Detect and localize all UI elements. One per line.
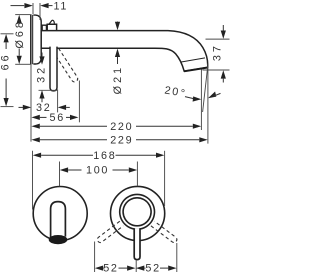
handle stem (front): [134, 228, 140, 259]
outlet face edge (thick): [184, 68, 208, 72]
dimension Ø68 (vertical, plate): [14, 15, 30, 65]
dimension 168: [33, 150, 165, 162]
handle body box: [47, 24, 56, 31]
dimension 37 (right): [203, 25, 230, 83]
svg-text:220: 220: [110, 121, 133, 133]
loop handle ring (front): [120, 194, 155, 229]
outlet joint line: [181, 58, 205, 62]
spout tube + curved outlet (silhouette): [41, 31, 208, 72]
svg-text:20: 20: [164, 85, 181, 99]
svg-text:168: 168: [93, 150, 116, 162]
wall plate second line: [32, 15, 34, 64]
svg-text:229: 229: [110, 135, 133, 147]
wall plate back rim (side view): [30, 14, 32, 64]
dimension 52 | 52: [95, 263, 177, 275]
svg-text:100: 100: [86, 165, 109, 177]
escutcheon dome profile: [33, 15, 41, 64]
svg-text:52: 52: [145, 263, 160, 275]
ext line right of lever (x=57.5): [57, 90, 59, 113]
left extension line below plate (x=31): [30, 65, 32, 142]
ext line 100 left (x=59.5): [59, 162, 61, 187]
dimension 11 (top): [11, 0, 69, 20]
ext line 52 left (x=94.6): [94, 242, 96, 273]
ext line 168 right (x=164.6): [164, 151, 166, 206]
dimension 32 horizontal: [19, 102, 70, 114]
dimension 229: [31, 135, 207, 147]
handle lever (solid, side view): [50, 47, 57, 91]
ext line 100 right (x=137.4): [136, 162, 138, 187]
handle lever swung (dashed, side view): [53, 48, 79, 83]
svg-text:32: 32: [36, 65, 48, 83]
svg-text:52: 52: [103, 263, 118, 275]
handle escutcheon circle (front): [111, 186, 165, 240]
spout tube from front (U shape): [51, 202, 66, 238]
dimension Ø21 (spout diameter): [112, 22, 124, 95]
handle cap small box on sleeve: [42, 25, 46, 31]
ext line 52 right (x=176.8): [176, 243, 178, 272]
svg-text:Ø68: Ø68: [14, 19, 26, 48]
dimension 100: [60, 165, 138, 177]
dimension 66 (vertical, far left): [0, 34, 14, 107]
svg-text:56: 56: [50, 112, 65, 124]
dimension 220: [31, 121, 201, 133]
loop handle top nub: [49, 20, 55, 24]
svg-text:Ø21: Ø21: [112, 65, 124, 94]
ext line under outlet A (x=201.4, for 220): [200, 70, 202, 131]
spout escutcheon circle (front): [33, 187, 87, 241]
spout outlet ellipse (dark): [49, 236, 67, 244]
center line below stem: [135, 261, 137, 273]
dashed swung handle left (front): [96, 221, 123, 243]
ext line swung lever tip (x=79.4): [78, 81, 80, 123]
dimension 56: [31, 112, 78, 124]
svg-text:66: 66: [0, 52, 12, 70]
ext line right: [39, 3, 41, 20]
20 degree slant line: [203, 67, 208, 113]
ext line 168 left (x=32.5): [32, 151, 34, 210]
dimension 20 degrees: [164, 85, 221, 102]
ext line left: [32, 3, 34, 14]
dashed swung handle right (front): [151, 221, 178, 243]
dimension 32 vertical (lever length): [36, 53, 58, 103]
svg-text:37: 37: [212, 43, 224, 61]
ext line under outlet B (x=207.9, for 229): [207, 64, 209, 144]
svg-text:11: 11: [54, 0, 69, 12]
